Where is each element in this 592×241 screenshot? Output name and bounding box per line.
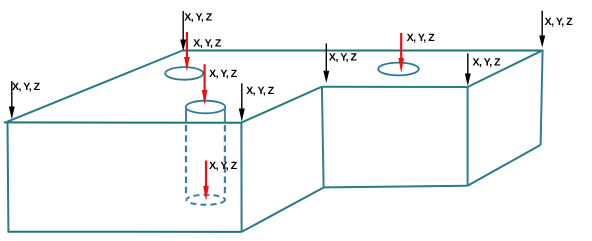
svg-text:X, Y, Z: X, Y, Z [473,56,502,68]
svg-text:X, Y, Z: X, Y, Z [12,81,41,93]
wire step bottom diagonal edge [242,188,324,232]
svg-text:X, Y, Z: X, Y, Z [193,38,222,50]
red arrow R2 [202,64,208,105]
wire left top diagonal edge [7,51,183,122]
wire bottom left edge [8,231,242,233]
black arrow A4 [239,83,245,121]
red arrow R3 [203,161,209,202]
cylinder left wall solid [185,108,187,123]
svg-text:X, Y, Z: X, Y, Z [329,52,358,64]
wire front top left edge [4,121,242,123]
wire middle right vertical edge [467,87,469,186]
wire right top diagonal edge [468,50,543,87]
black arrow A3 [9,81,15,119]
cylinder bottom ellipse dashed E4 [186,195,225,205]
black arrow A6 [539,11,545,48]
red arrow R4 [398,33,404,73]
wire right vertical edge [541,50,543,145]
wire middle bottom edge [324,186,468,188]
svg-text:X, Y, Z: X, Y, Z [184,11,213,23]
cylinder top ellipse E3 [186,101,226,114]
wire left block right vertical edge [240,123,242,232]
cylinder right wall solid [224,108,226,123]
svg-text:X, Y, Z: X, Y, Z [209,68,238,80]
black arrow A2 [323,43,329,83]
cylinder right wall hidden dashed [224,125,226,195]
black arrow A5 [465,53,471,86]
svg-text:X, Y, Z: X, Y, Z [209,160,238,172]
wire step top diagonal edge [241,87,321,123]
wire back top edge [182,50,543,52]
black arrow A1 [180,11,186,51]
cylinder left wall hidden dashed [185,125,187,195]
hole ellipse E1 left top face [165,67,203,80]
svg-text:X, Y, Z: X, Y, Z [407,32,436,44]
hole ellipse E2 right top face [378,63,419,76]
wire right bottom diagonal edge [468,145,541,186]
wire middle left vertical edge [322,87,324,188]
svg-text:X, Y, Z: X, Y, Z [246,85,275,97]
red arrow R1 [184,32,190,72]
wire middle top edge [322,86,468,88]
svg-text:X, Y, Z: X, Y, Z [545,16,574,28]
wire left vertical edge [7,122,10,231]
